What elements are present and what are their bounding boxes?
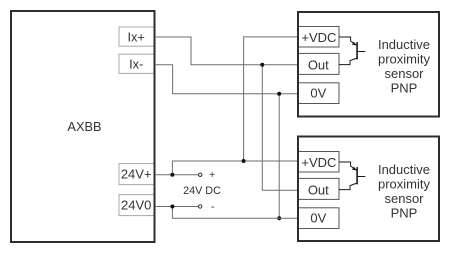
transistor Q1 (PNP) emitter lead from +VDC	[339, 37, 356, 45]
svg-text:+VDC: +VDC	[301, 155, 336, 170]
sensor 1 box	[298, 12, 439, 117]
transistor Q1 base bar	[356, 42, 358, 59]
svg-text:Inductive: Inductive	[378, 162, 430, 177]
wire 24V0 rail to sensor2 0V	[172, 207, 297, 219]
AXBB controller box U1	[11, 11, 155, 242]
sensor 2 terminal 0V	[298, 208, 340, 229]
svg-text:Inductive: Inductive	[378, 37, 430, 52]
supply terminal - circle	[199, 205, 202, 208]
svg-text:AXBB: AXBB	[67, 119, 101, 134]
sensor 2 label	[378, 162, 431, 221]
svg-text:0V: 0V	[310, 211, 326, 226]
sensor 2 terminal Out	[298, 178, 340, 199]
sensor 2 terminal +VDC	[298, 152, 340, 173]
transistor Q2 collector lead to Out	[339, 183, 357, 190]
transistor Q2 base lead	[357, 176, 365, 178]
junction dot 0V sensor1	[277, 92, 281, 96]
terminal 24V+	[119, 164, 155, 185]
transistor Q1 base lead	[357, 51, 365, 53]
junction dot 0V rail	[277, 216, 281, 220]
svg-text:proximity: proximity	[378, 51, 431, 66]
transistor Q2 base bar	[356, 167, 358, 184]
terminal 24V0	[119, 195, 155, 216]
svg-text:Ix+: Ix+	[127, 29, 144, 44]
sensor 1 terminal Out	[298, 53, 340, 74]
junction dot 24V0	[170, 205, 174, 209]
transistor Q1 collector lead to Out	[339, 58, 357, 65]
sensor 2 box	[298, 137, 439, 242]
transistor Q2 emitter arrowhead	[352, 167, 357, 171]
svg-text:Out: Out	[308, 183, 329, 198]
svg-text:24V0: 24V0	[121, 198, 151, 213]
terminal Ix-	[119, 54, 155, 73]
junction dot +VDC branch	[242, 159, 246, 163]
supply terminal + circle	[199, 173, 202, 176]
terminal Ix+	[119, 27, 155, 46]
svg-text:sensor: sensor	[384, 66, 424, 81]
sensor 1 terminal +VDC	[298, 27, 340, 48]
svg-text:PNP: PNP	[391, 205, 418, 220]
svg-text:Out: Out	[308, 58, 329, 73]
wire 24V0 to supply -	[155, 206, 198, 208]
wire 24V+ to supply +	[155, 174, 198, 176]
sensor 1 label	[378, 37, 431, 96]
junction dot 24V+	[170, 173, 174, 177]
wire 24V+ rail to sensor2 +VDC	[172, 161, 297, 175]
svg-text:0V: 0V	[310, 86, 326, 101]
svg-text:24V DC: 24V DC	[183, 185, 221, 197]
transistor Q2 (PNP) emitter lead from +VDC	[339, 162, 356, 170]
svg-text:Ix-: Ix-	[129, 57, 143, 72]
svg-text:PNP: PNP	[391, 80, 418, 95]
svg-text:sensor: sensor	[384, 191, 424, 206]
wire branch to sensor1 +VDC	[244, 37, 297, 161]
wire 0V vertical link	[278, 94, 280, 219]
sensor 1 terminal 0V	[298, 83, 340, 104]
svg-text:+: +	[209, 170, 215, 181]
transistor Q1 emitter arrowhead	[352, 42, 357, 46]
svg-text:24V+: 24V+	[121, 167, 152, 182]
svg-text:-: -	[211, 201, 215, 213]
wire branch to sensor2 Out	[262, 65, 297, 190]
wire Ix- to sensor1 0V	[155, 65, 297, 94]
svg-text:+VDC: +VDC	[301, 30, 336, 45]
svg-text:proximity: proximity	[378, 176, 431, 191]
junction dot Ix+/Out2	[260, 63, 264, 67]
wire Ix+ to sensor1 Out	[155, 37, 297, 65]
